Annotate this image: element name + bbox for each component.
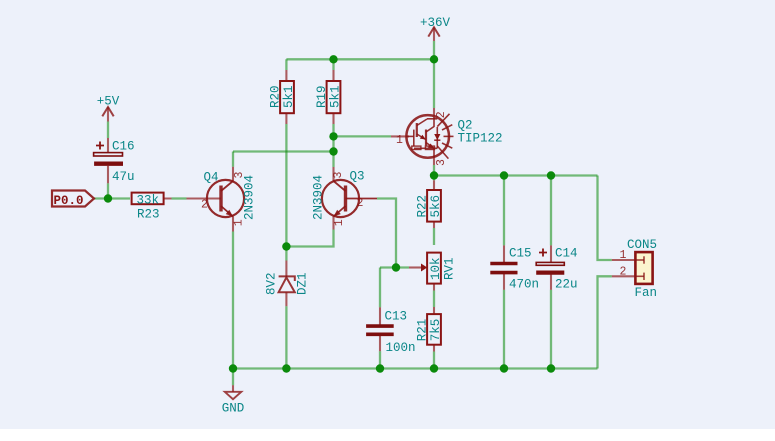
svg-text:DZ1: DZ1 [296,272,310,295]
svg-text:Q4: Q4 [204,171,219,185]
svg-text:+36V: +36V [420,16,451,30]
svg-text:3: 3 [233,172,246,179]
svg-text:22u: 22u [555,277,578,291]
svg-text:CON5: CON5 [627,238,657,252]
svg-text:3: 3 [332,172,345,179]
svg-text:R22: R22 [415,195,429,218]
svg-text:1: 1 [232,219,245,226]
svg-text:2N3904: 2N3904 [312,175,326,220]
svg-text:TIP122: TIP122 [458,131,503,145]
svg-text:5k1: 5k1 [282,85,296,108]
svg-text:Q3: Q3 [350,170,365,184]
svg-text:2: 2 [201,198,208,211]
svg-text:5k1: 5k1 [328,85,342,108]
svg-text:1: 1 [620,249,627,262]
svg-text:7k5: 7k5 [429,319,443,342]
svg-text:2: 2 [357,197,364,210]
svg-text:+5V: +5V [97,95,120,109]
svg-text:470n: 470n [509,277,539,291]
svg-text:1: 1 [396,134,403,147]
svg-text:C15: C15 [509,246,532,260]
svg-text:47u: 47u [112,170,135,184]
svg-text:2N3904: 2N3904 [243,175,257,220]
svg-text:C13: C13 [385,309,408,323]
svg-text:1: 1 [333,219,346,226]
svg-text:5k6: 5k6 [429,195,443,218]
svg-text:2: 2 [435,111,448,118]
svg-text:10k: 10k [429,257,443,280]
svg-text:C16: C16 [112,139,135,153]
svg-text:R19: R19 [315,85,329,108]
svg-text:RV1: RV1 [443,257,457,280]
svg-text:2: 2 [620,265,627,278]
svg-text:33k: 33k [137,193,160,207]
svg-text:100n: 100n [386,341,416,355]
svg-text:3: 3 [435,159,448,166]
svg-text:R20: R20 [268,85,282,108]
svg-text:C14: C14 [555,246,578,260]
svg-text:GND: GND [222,401,245,415]
svg-text:R23: R23 [137,208,160,222]
svg-text:8V2: 8V2 [265,272,279,295]
svg-text:R21: R21 [415,319,429,342]
svg-text:Fan: Fan [635,286,658,300]
svg-text:P0.0: P0.0 [53,194,83,208]
